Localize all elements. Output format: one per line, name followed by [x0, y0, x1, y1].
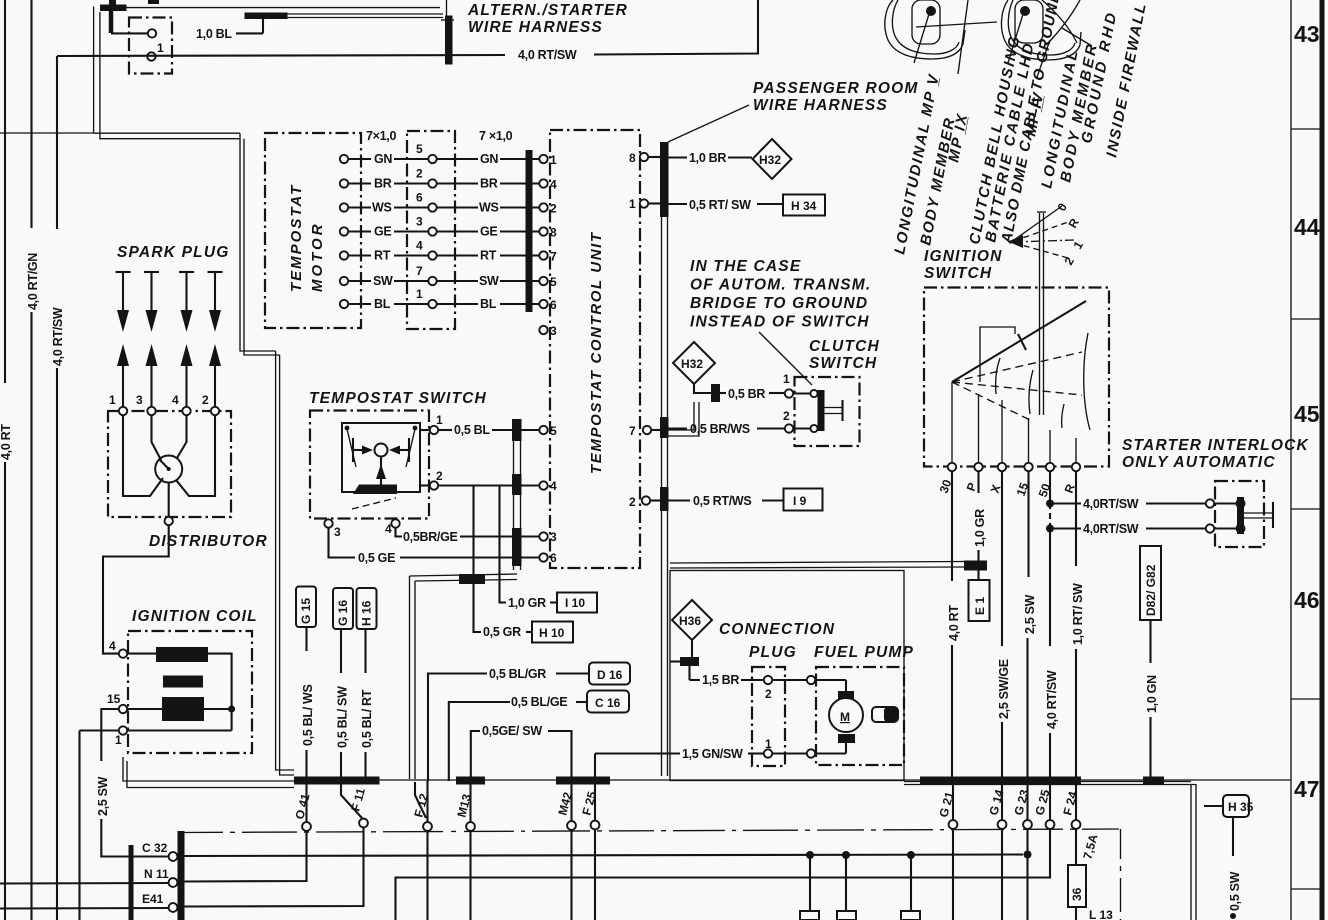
- connector H16 box: [357, 588, 377, 629]
- svg-text:WIRE HARNESS: WIRE HARNESS: [753, 97, 888, 114]
- ignition switch pins 30 P X 15 50 R: [937, 463, 1081, 499]
- C32 N11 E41 connector bar: [178, 831, 185, 920]
- connector I10 box: [557, 593, 597, 613]
- svg-text:SW: SW: [373, 274, 393, 288]
- control unit pin 3 lower: [539, 530, 557, 544]
- svg-text:BR: BR: [374, 177, 392, 191]
- wire plug to fuel pump: [772, 679, 807, 681]
- wire 0,5 RT/SW to H34: [669, 198, 783, 212]
- svg-text:0,5 BR/WS: 0,5 BR/WS: [690, 422, 750, 436]
- tempostat switch pin 1: [420, 413, 443, 434]
- svg-text:TEMPOSTAT CONTROL UNIT: TEMPOSTAT CONTROL UNIT: [588, 231, 605, 474]
- wire 0,5 RT/WS to I9: [669, 494, 784, 508]
- distributor internals: [123, 415, 215, 525]
- clutch switch contacts: [794, 390, 843, 432]
- svg-text:WS: WS: [372, 201, 392, 215]
- connector G14: [986, 781, 1006, 920]
- wire 1,0 BL: [111, 17, 263, 41]
- svg-text:1: 1: [436, 413, 443, 427]
- svg-text:0,5 SW: 0,5 SW: [1228, 871, 1242, 911]
- svg-text:2,5 SW/GE: 2,5 SW/GE: [997, 659, 1011, 719]
- harness black bar lower-left: [129, 845, 134, 920]
- svg-text:G 15: G 15: [299, 598, 313, 624]
- wire 1,0 GN from D82/G82: [1145, 620, 1159, 781]
- starter interlock solenoid contact: [1214, 497, 1273, 534]
- connector D82/G82 box: [1140, 546, 1161, 620]
- svg-text:H 35: H 35: [1228, 800, 1254, 814]
- control unit connector bar: [526, 150, 533, 312]
- wire 1,0 BR to H32: [669, 151, 753, 165]
- svg-text:0,5 BR: 0,5 BR: [728, 387, 765, 401]
- row GE: [340, 215, 557, 240]
- svg-text:6: 6: [416, 191, 423, 205]
- svg-text:1,5 GN/SW: 1,5 GN/SW: [682, 747, 743, 761]
- tempostat switch valve symbol: [345, 426, 418, 509]
- tempostat switch pin 3: [324, 519, 341, 539]
- svg-text:4,0 RT/SW: 4,0 RT/SW: [51, 307, 65, 366]
- svg-text:0,5GE/ SW: 0,5GE/ SW: [482, 724, 542, 738]
- svg-text:7 ×1,0: 7 ×1,0: [479, 129, 513, 143]
- connector G21: [936, 781, 957, 920]
- svg-text:SWITCH: SWITCH: [809, 355, 877, 372]
- svg-text:0,5 GR: 0,5 GR: [483, 625, 521, 639]
- wire 0,5 BL to pin 5: [438, 423, 539, 437]
- svg-text:CONNECTION: CONNECTION: [719, 621, 835, 638]
- svg-text:I 10: I 10: [565, 596, 585, 610]
- wire 0,5 BL/WS: [301, 627, 315, 781]
- svg-text:0,5 BL/ RT: 0,5 BL/ RT: [360, 689, 374, 748]
- svg-text:0,5 BL/ WS: 0,5 BL/ WS: [301, 684, 315, 746]
- svg-text:OF AUTOM. TRANSM.: OF AUTOM. TRANSM.: [690, 277, 871, 294]
- connector F25: [579, 754, 599, 920]
- svg-text:H32: H32: [681, 357, 703, 371]
- svg-text:2,5 SW: 2,5 SW: [1023, 594, 1037, 634]
- row BR: [340, 167, 557, 192]
- wire 2,5 SW from terminal 15 to C32: [96, 709, 170, 857]
- svg-text:7: 7: [416, 264, 423, 278]
- alternator wire pair to starter bar: [127, 0, 455, 20]
- svg-text:2: 2: [416, 167, 423, 181]
- label ALTERN./STARTER WIRE HARNESS: [467, 2, 628, 36]
- harness channel horizontal to E1: [670, 562, 964, 569]
- wire terminal 1 to left drop: [80, 729, 120, 731]
- svg-text:SW: SW: [479, 274, 499, 288]
- wire 4,0 RT from pin 30: [947, 471, 961, 781]
- svg-text:1: 1: [783, 372, 790, 386]
- ignition coil box: [128, 631, 252, 753]
- wire 0,5BL/GR to D16: [428, 667, 588, 781]
- tempostat switch inner box: [342, 423, 420, 492]
- fuse 36 7,5A: [1068, 832, 1101, 920]
- distributor pin numbers 1 3 4 2: [109, 393, 209, 407]
- connector H32 diamond: [753, 139, 792, 179]
- svg-text:47: 47: [1294, 776, 1320, 802]
- connector F12: [411, 781, 432, 920]
- distributor box: [108, 407, 231, 517]
- wire 0,5 BR to clutch switch pin 1: [720, 372, 793, 401]
- svg-text:4: 4: [385, 522, 392, 536]
- label STARTER INTERLOCK ONLY AUTOMATIC: [1122, 437, 1309, 471]
- wire N11 row to O41: [0, 831, 307, 884]
- svg-text:4: 4: [109, 639, 116, 653]
- svg-text:4,0 RT: 4,0 RT: [947, 605, 961, 641]
- ALTERN./STARTER harness junction bar: [445, 16, 453, 65]
- svg-text:N 11: N 11: [144, 867, 169, 881]
- connector C 32: [142, 841, 177, 861]
- distributor arrows up: [117, 344, 221, 406]
- clutch switch box: [795, 377, 860, 446]
- tempostat switch pin 2: [420, 469, 443, 490]
- bottom component stubs: [800, 855, 920, 920]
- svg-text:0,5 BL: 0,5 BL: [454, 423, 490, 437]
- coil secondary winding: [162, 697, 204, 721]
- connector H10 box: [532, 622, 573, 643]
- connector O41: [292, 781, 312, 831]
- svg-text:1,0 BR: 1,0 BR: [689, 151, 726, 165]
- svg-text:I 9: I 9: [793, 494, 807, 508]
- connector I9 box: [784, 489, 823, 511]
- svg-text:4,0RT/SW: 4,0RT/SW: [1083, 522, 1139, 536]
- page border right column: [1291, 0, 1322, 920]
- svg-text:TEMPOSTAT: TEMPOSTAT: [288, 184, 305, 292]
- svg-text:8: 8: [629, 151, 636, 165]
- connector F11: [341, 782, 368, 827]
- wire 4,0 RT/SW horizontal: [57, 0, 758, 62]
- svg-text:ALTERN./STARTER: ALTERN./STARTER: [467, 2, 628, 19]
- connector M42: [555, 781, 576, 920]
- svg-text:7: 7: [629, 424, 636, 438]
- control unit left pins column: [0, 0, 1, 1]
- wire 1,5 BR to plug pin 2: [690, 666, 765, 687]
- spark plug enclosure left outline: [123, 757, 294, 788]
- svg-text:1,0 RT/ SW: 1,0 RT/ SW: [1071, 583, 1085, 645]
- svg-text:46: 46: [1294, 587, 1320, 613]
- coil core: [163, 676, 203, 688]
- fuel pump motor: [815, 680, 898, 754]
- svg-text:WIRE HARNESS: WIRE HARNESS: [468, 19, 603, 36]
- svg-text:1: 1: [157, 41, 164, 55]
- wire 4,0 RT/SW vertical: [51, 56, 65, 920]
- connector M13: [454, 781, 475, 920]
- connector F24: [1060, 781, 1080, 865]
- svg-text:ONLY AUTOMATIC: ONLY AUTOMATIC: [1122, 454, 1276, 471]
- svg-text:BRIDGE TO GROUND: BRIDGE TO GROUND: [690, 295, 868, 312]
- svg-text:G 16: G 16: [336, 600, 350, 626]
- key position fan: [1008, 200, 1086, 267]
- svg-text:E41: E41: [142, 892, 164, 906]
- thick harness bar top-left: [100, 0, 159, 33]
- svg-text:5: 5: [550, 424, 557, 438]
- svg-text:1: 1: [109, 393, 116, 407]
- svg-text:1: 1: [765, 737, 772, 751]
- control unit pin 2 right: [629, 495, 660, 509]
- ignition switch internal pin leads: [952, 382, 1076, 465]
- H36 stem to junction: [670, 640, 699, 666]
- svg-text:H 10: H 10: [539, 626, 565, 640]
- thick harness bar 2: [245, 13, 288, 20]
- svg-text:E 1: E 1: [973, 597, 987, 615]
- coil terminal 1: [115, 726, 127, 747]
- svg-text:H 34: H 34: [791, 199, 817, 213]
- svg-text:WS: WS: [479, 201, 499, 215]
- ignition switch box: [924, 288, 1109, 467]
- svg-text:3: 3: [416, 215, 423, 229]
- svg-text:1,5 BR: 1,5 BR: [702, 673, 739, 687]
- motor wire rows: [340, 142, 557, 312]
- svg-text:3: 3: [550, 530, 557, 544]
- svg-text:4: 4: [550, 479, 557, 493]
- wire 2,5 SW from pin 15: [1023, 471, 1037, 781]
- svg-text:RT: RT: [480, 249, 497, 263]
- tempostat control unit box: [550, 130, 640, 568]
- tempostat switch box: [310, 411, 429, 519]
- svg-text:GE: GE: [480, 225, 497, 239]
- svg-text:2: 2: [436, 469, 443, 483]
- ground point E1 bar: [964, 561, 987, 571]
- svg-text:4,0 RT: 4,0 RT: [0, 424, 13, 460]
- svg-text:1: 1: [629, 197, 636, 211]
- row BL: [340, 287, 557, 312]
- svg-text:2: 2: [202, 393, 209, 407]
- svg-text:5: 5: [416, 142, 423, 156]
- control unit pin 6 lower: [539, 551, 557, 565]
- svg-text:0,5 GE: 0,5 GE: [358, 551, 395, 565]
- svg-text:7×1,0: 7×1,0: [366, 129, 396, 143]
- svg-text:4: 4: [416, 239, 423, 253]
- fuel pump terminal top: [807, 676, 815, 684]
- connector G23: [1011, 781, 1032, 920]
- connection plug box: [752, 667, 785, 766]
- svg-text:STARTER INTERLOCK: STARTER INTERLOCK: [1122, 437, 1309, 454]
- svg-text:H32: H32: [759, 153, 781, 167]
- control unit pin 3 stub: [539, 324, 557, 338]
- wire 0,5 GE to control unit pin 6: [329, 528, 540, 566]
- spark plug arrows down: [116, 272, 223, 332]
- label PASSENGER ROOM WIRE HARNESS: [753, 80, 919, 114]
- coil terminal 15: [107, 692, 127, 713]
- svg-text:H 16: H 16: [360, 600, 374, 626]
- ignition switch contact notch: [980, 327, 1015, 382]
- svg-text:0,5 BL/ SW: 0,5 BL/ SW: [336, 686, 350, 748]
- wire 0,5 BL/RT: [360, 629, 374, 781]
- control unit pin 5 lower: [539, 424, 557, 438]
- svg-text:43: 43: [1294, 21, 1320, 47]
- connector H32 diamond lower: [673, 342, 715, 384]
- connector H36 diamond: [672, 600, 712, 640]
- ignition key shaft: [1037, 212, 1046, 415]
- svg-text:0,5 RT/ SW: 0,5 RT/ SW: [689, 198, 751, 212]
- passenger room harness channel vertical: [660, 142, 669, 776]
- svg-text:CLUTCH: CLUTCH: [809, 338, 880, 355]
- svg-text:GN: GN: [374, 152, 392, 166]
- svg-text:DISTRIBUTOR: DISTRIBUTOR: [149, 533, 268, 550]
- svg-text:0,5 BL/GE: 0,5 BL/GE: [511, 695, 567, 709]
- svg-text:INSTEAD OF SWITCH: INSTEAD OF SWITCH: [690, 314, 870, 331]
- tempostat motor connector box: [407, 131, 455, 329]
- connector D16 box: [589, 663, 630, 685]
- svg-text:15: 15: [107, 692, 121, 706]
- lower harness channel bar: [512, 419, 522, 570]
- svg-text:2: 2: [765, 687, 772, 701]
- coil primary winding: [156, 647, 208, 662]
- svg-text:4,0 RT/GN: 4,0 RT/GN: [26, 253, 40, 310]
- svg-text:SWITCH: SWITCH: [924, 265, 992, 282]
- wire 1,0 GR to I10: [500, 486, 558, 611]
- label CLUTCH SWITCH: [809, 338, 880, 372]
- wire 0,5 SW from H35: [1228, 817, 1242, 919]
- svg-text:D82/ G82: D82/ G82: [1144, 564, 1158, 616]
- wire E41 row to F11: [0, 828, 364, 909]
- note IN THE CASE OF AUTOM. TRANSM.: [690, 258, 871, 331]
- svg-text:BR: BR: [480, 177, 498, 191]
- svg-text:6: 6: [550, 551, 557, 565]
- svg-text:PASSENGER ROOM: PASSENGER ROOM: [753, 80, 919, 97]
- control unit pin 7 right: [629, 424, 660, 438]
- wire 1,5 GN/SW to plug pin 1: [595, 737, 846, 761]
- svg-text:1,0 GR: 1,0 GR: [973, 509, 987, 547]
- wire C32 row: [185, 851, 1024, 859]
- starter interlock box: [1215, 481, 1264, 547]
- connector box (1,0BL / 1): [129, 18, 172, 74]
- coil terminal 4: [109, 639, 127, 658]
- svg-text:0,5BR/GE: 0,5BR/GE: [403, 530, 458, 544]
- svg-text:2,5 SW: 2,5 SW: [96, 776, 110, 816]
- svg-text:IGNITION: IGNITION: [924, 248, 1003, 265]
- lower enclosure channel: [410, 574, 518, 779]
- svg-text:2: 2: [783, 409, 790, 423]
- svg-text:SPARK PLUG: SPARK PLUG: [117, 244, 229, 261]
- wire 2,5 SW/GE from pin X: [997, 471, 1011, 781]
- wire 1,0 RT/SW from pin R: [1071, 471, 1085, 781]
- svg-text:4: 4: [172, 393, 179, 407]
- svg-text:44: 44: [1294, 214, 1320, 240]
- wire 0,5 BL/SW: [336, 629, 350, 781]
- connector G15 box: [296, 587, 316, 628]
- row RT: [340, 239, 557, 264]
- svg-text:FUEL PUMP: FUEL PUMP: [814, 644, 914, 661]
- connector C16 box: [587, 691, 629, 713]
- svg-text:1,0 GR: 1,0 GR: [508, 596, 546, 610]
- control unit pin 1 right: [629, 197, 660, 211]
- wire distributor to coil terminal 4: [103, 525, 169, 654]
- svg-text:IGNITION COIL: IGNITION COIL: [132, 608, 258, 625]
- svg-text:IN THE CASE: IN THE CASE: [690, 258, 801, 275]
- tempostat motor box: [265, 133, 361, 328]
- connector N 11: [144, 867, 177, 887]
- svg-text:2: 2: [629, 495, 636, 509]
- wire H32 to junction 0,5 BR: [662, 384, 721, 436]
- wire 4,0 RT/GN: [26, 0, 40, 920]
- svg-text:GN: GN: [480, 152, 498, 166]
- wire coil terminal1 drop: [78, 731, 80, 920]
- wire 4,0 RT left edge: [0, 0, 13, 920]
- wire pin2 to control unit pin 4: [438, 484, 539, 486]
- connector G25: [396, 781, 1055, 920]
- svg-text:TEMPOSTAT SWITCH: TEMPOSTAT SWITCH: [309, 390, 487, 407]
- plug pin 2: [764, 676, 772, 701]
- svg-text:M: M: [840, 710, 850, 724]
- svg-text:H36: H36: [679, 614, 701, 628]
- svg-text:GE: GE: [374, 225, 391, 239]
- main harness bus y780: [294, 777, 1291, 785]
- row GN: [340, 142, 557, 167]
- wire 0,5 GR to H10: [474, 486, 533, 640]
- svg-text:45: 45: [1294, 401, 1320, 427]
- svg-text:BL: BL: [374, 297, 391, 311]
- svg-text:4,0 RT/SW: 4,0 RT/SW: [518, 48, 577, 62]
- tempostat switch pin 4: [385, 519, 400, 536]
- wire 1,0 GR from pin P to E1: [973, 471, 987, 562]
- svg-text:D 16: D 16: [597, 668, 623, 682]
- car underbody left section: [885, 0, 997, 74]
- svg-text:4,0 RT/SW: 4,0 RT/SW: [1045, 670, 1059, 729]
- svg-text:3: 3: [136, 393, 143, 407]
- connector G16 box: [333, 588, 353, 629]
- connector E1 box: [969, 570, 990, 621]
- control unit pin 8 right: [629, 151, 660, 165]
- fuel pump enclosure outline: [670, 571, 904, 781]
- control unit pin 4 lower: [539, 479, 557, 493]
- harness channel drop right: [904, 782, 1196, 920]
- connector H35: [1204, 795, 1254, 817]
- wire 4,0RT/SW to starter interlock pin a: [1054, 497, 1214, 511]
- row WS: [340, 191, 557, 216]
- svg-text:1,0 GN: 1,0 GN: [1145, 675, 1159, 713]
- ignition switch wiper guide lines: [952, 352, 1082, 420]
- wire 4,0RT/SW to starter interlock pin b: [1054, 522, 1214, 536]
- ignition switch rotor diagonal: [952, 301, 1086, 382]
- svg-text:L 13: L 13: [1089, 908, 1113, 920]
- label IGNITION SWITCH: [924, 248, 1003, 282]
- svg-text:0,5 RT/WS: 0,5 RT/WS: [693, 494, 751, 508]
- svg-text:36: 36: [1070, 887, 1084, 901]
- alternator harness channel top-left: [0, 7, 294, 776]
- screened bus dash-dot y830: [183, 829, 1121, 920]
- coil internal wires: [127, 654, 235, 731]
- svg-text:PLUG: PLUG: [749, 644, 797, 661]
- leader from note to clutch switch: [759, 332, 812, 385]
- connector H34 box: [783, 195, 825, 216]
- svg-text:3: 3: [334, 525, 341, 539]
- svg-text:1,0 BL: 1,0 BL: [196, 27, 232, 41]
- wire 0,5GE/SW: [471, 724, 572, 781]
- wire 0,5BR/GE to control unit pin 3: [396, 528, 540, 545]
- ignition switch contact arcs: [996, 333, 1090, 430]
- svg-text:C 16: C 16: [595, 696, 621, 710]
- svg-text:0,5 BL/GR: 0,5 BL/GR: [489, 667, 546, 681]
- svg-text:1: 1: [416, 287, 423, 301]
- wire 0,5 BR/WS to clutch switch pin 2: [669, 409, 794, 436]
- row SW: [340, 264, 557, 289]
- svg-text:4,0RT/SW: 4,0RT/SW: [1083, 497, 1139, 511]
- wire 0,5BL/GE to C16: [449, 695, 586, 781]
- fuel pump box: [816, 667, 904, 765]
- car underbody right section: [1001, 0, 1092, 77]
- svg-text:MOTOR: MOTOR: [309, 221, 326, 292]
- svg-text:BL: BL: [480, 297, 497, 311]
- svg-text:RT: RT: [374, 249, 391, 263]
- connector E41: [142, 892, 177, 912]
- leader line passenger room harness: [668, 105, 749, 142]
- wire 4,0 RT/SW from pin 50: [1045, 471, 1059, 781]
- svg-text:C 32: C 32: [142, 841, 168, 855]
